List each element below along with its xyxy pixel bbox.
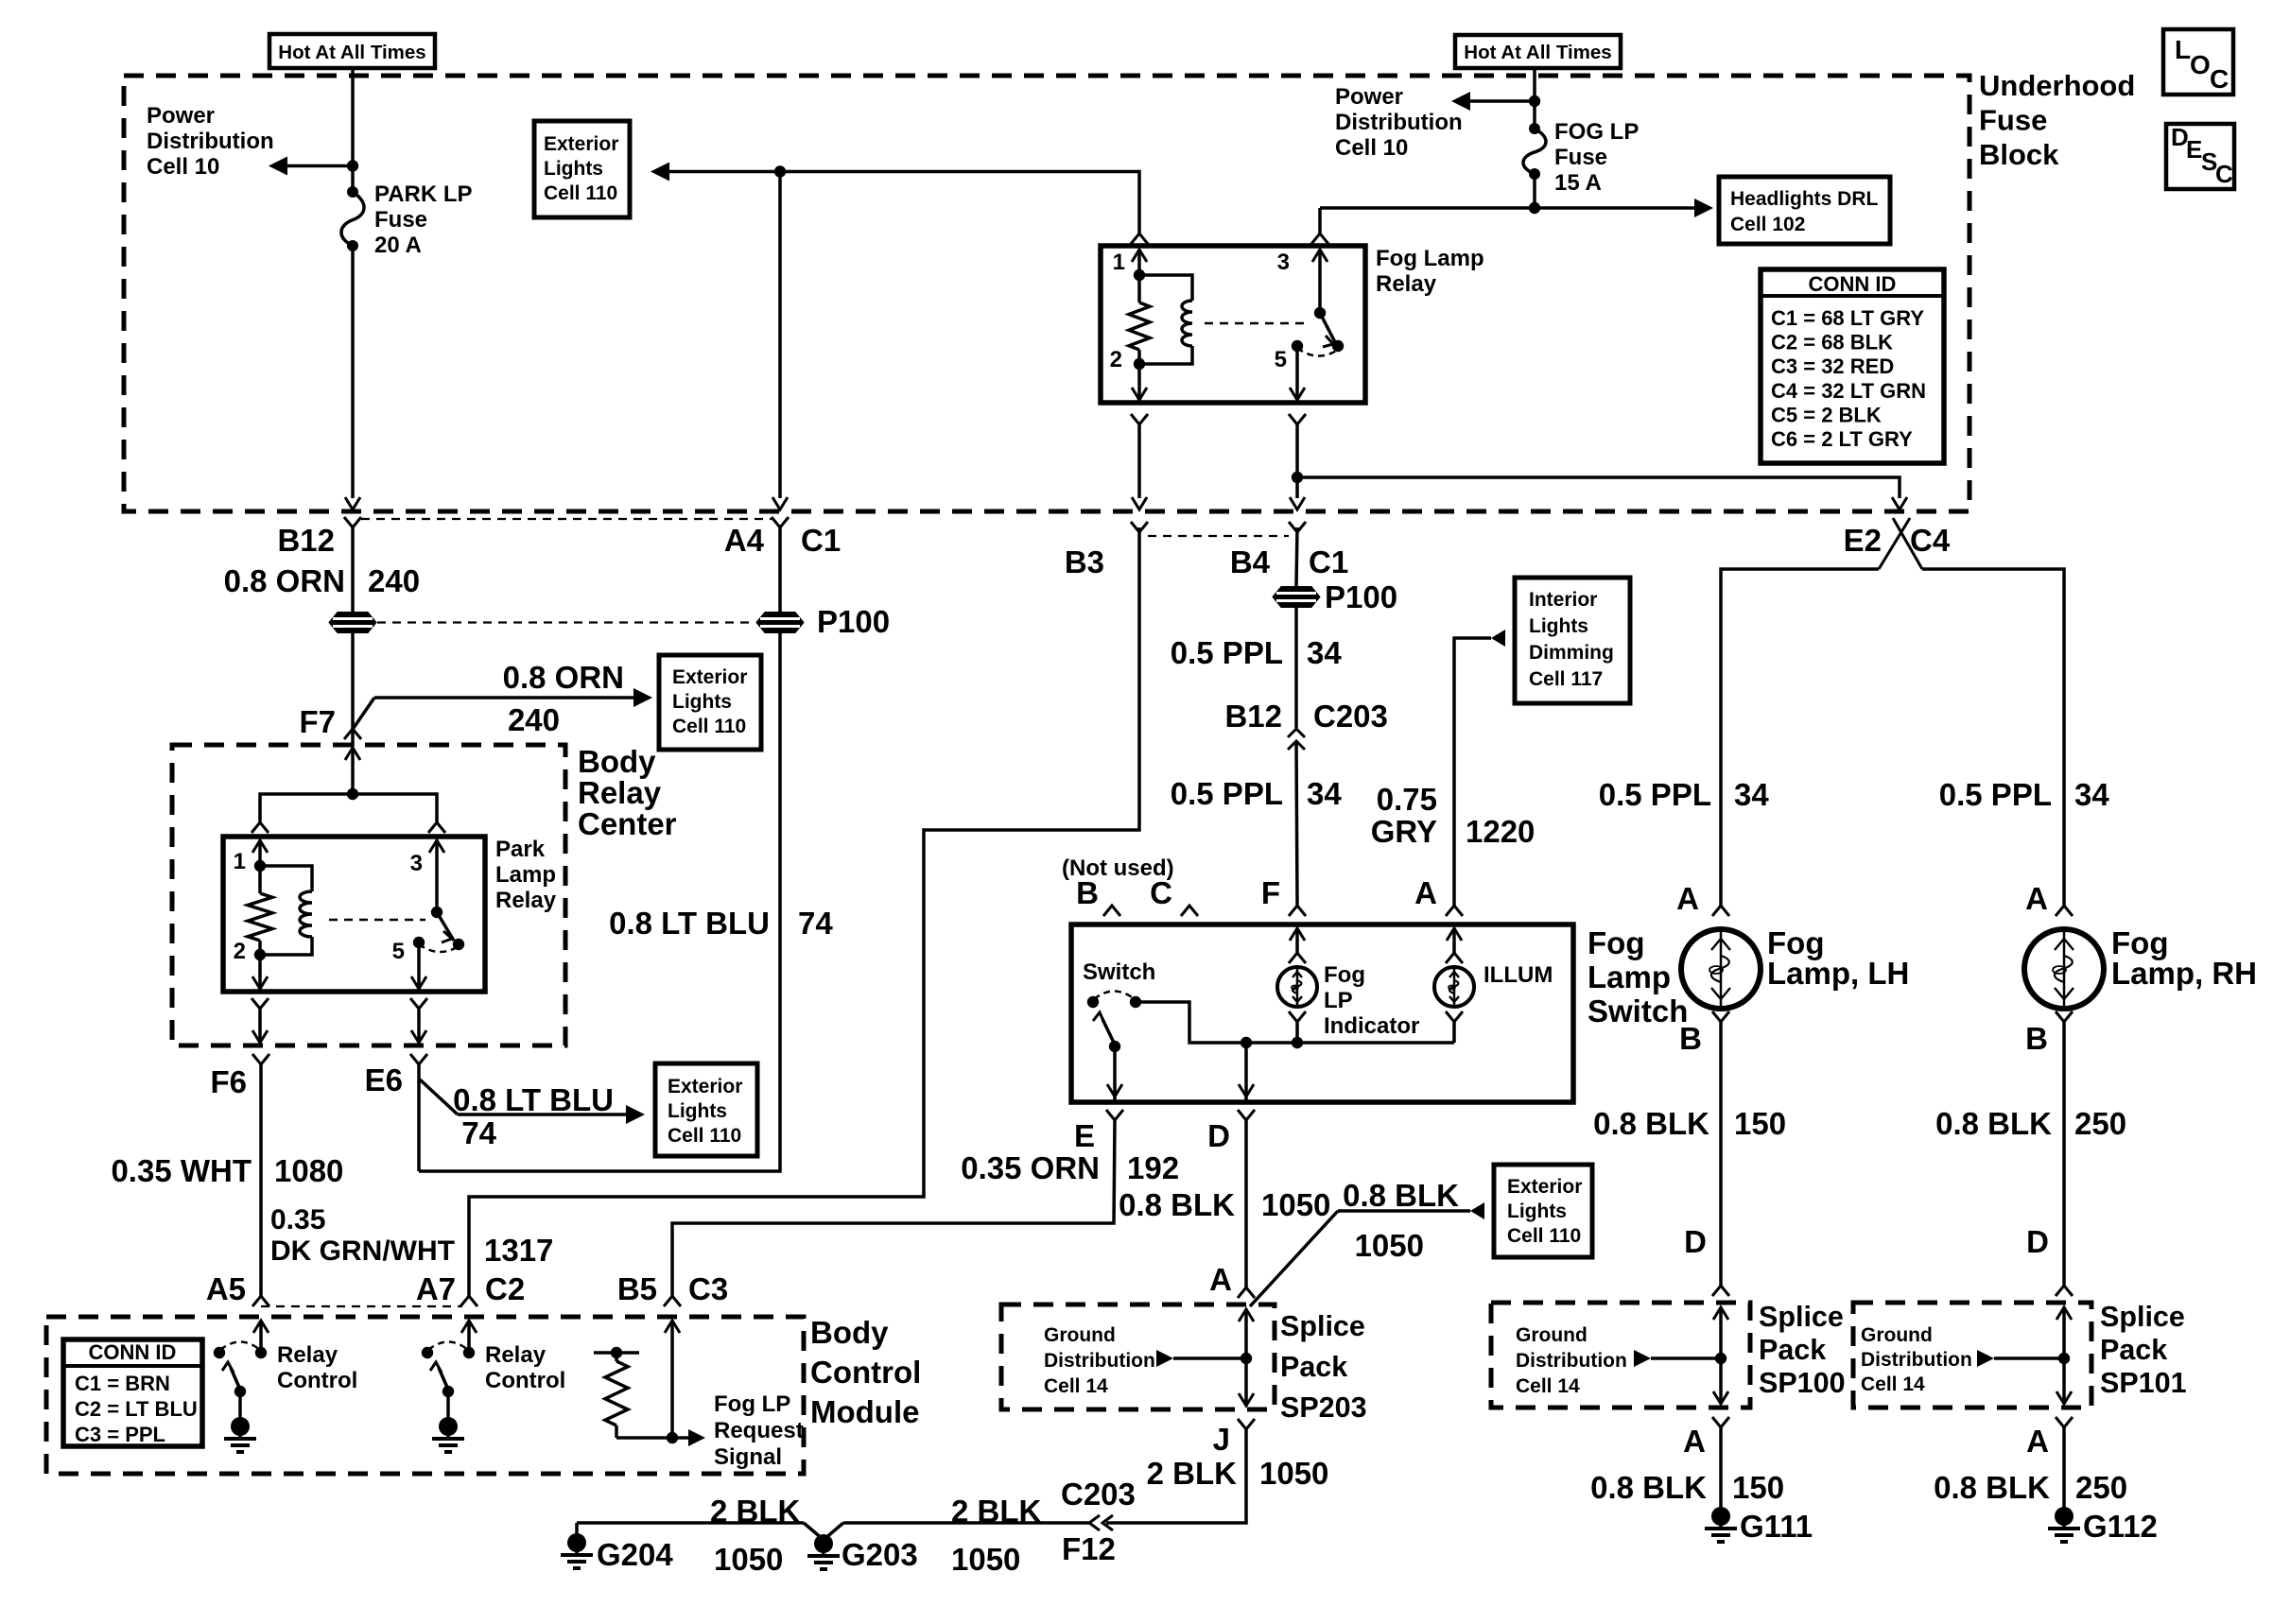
junction dot power distribution tap — [347, 160, 358, 171]
connector D chevron above SP100 — [1712, 1286, 1729, 1296]
svg-text:D: D — [1207, 1118, 1230, 1153]
thin dashed link B12 A4 — [361, 518, 772, 520]
connector fog relay pin3 chevron — [1311, 233, 1328, 244]
svg-text:0.8 BLK: 0.8 BLK — [1590, 1470, 1707, 1505]
svg-text:CONN ID: CONN ID — [1809, 272, 1897, 296]
wire indicator to rail — [1295, 1022, 1299, 1043]
svg-text:150: 150 — [1734, 1106, 1786, 1141]
box Headlights DRL Cell 102 — [1719, 177, 1890, 244]
svg-text:150: 150 — [1732, 1470, 1784, 1505]
lamp illum bottom chevron — [1446, 1011, 1463, 1022]
hot at all times box right — [1455, 35, 1621, 68]
connector fog relay pin1 chevron — [1131, 233, 1148, 244]
junction dot sp101 — [2058, 1353, 2070, 1364]
ground symbol A5 — [224, 1417, 256, 1452]
svg-text:G112: G112 — [2083, 1509, 2158, 1544]
connector A chevron below sp101 — [2056, 1417, 2073, 1427]
junction dot rail D drop — [1241, 1037, 1252, 1048]
connector park relay pin5 exit chevron — [410, 998, 427, 1009]
svg-text:1080: 1080 — [274, 1153, 343, 1188]
wire SP100 to G111 — [1719, 1427, 1723, 1509]
wire 0.8 ORN 240 branch to exterior lights box — [374, 696, 635, 700]
wire switch contact to rail — [1136, 1002, 1454, 1043]
svg-text:1050: 1050 — [714, 1542, 783, 1577]
connector X E2 C4 — [1879, 518, 1922, 569]
lamp indicator bottom chevron — [1289, 1011, 1306, 1022]
svg-text:A: A — [1676, 881, 1699, 916]
connector A7 chevron — [460, 1296, 477, 1306]
wire ground run G203 to C203 — [843, 1521, 1089, 1525]
svg-text:3: 3 — [1277, 250, 1290, 275]
wire fog relay pin3 to pivot — [1318, 250, 1322, 313]
wire fog relay pin2 down — [1137, 364, 1141, 401]
splice pack SP100 dashed box — [1491, 1303, 1750, 1408]
svg-text:1317: 1317 — [484, 1233, 553, 1268]
svg-text:1050: 1050 — [1355, 1228, 1424, 1263]
wire pin5 exit to BRC border — [417, 1009, 421, 1042]
wire top distribution to fog relay pin1 — [780, 172, 1139, 234]
svg-text:Switch: Switch — [1083, 959, 1155, 985]
lamp Fog Lamp RH — [2024, 929, 2104, 1009]
wire ground run G204 to G203 — [577, 1521, 804, 1525]
connector C203 F12 double chevron — [1089, 1515, 1113, 1530]
wire fog relay pin5 down — [1295, 346, 1299, 401]
svg-text:2 BLK: 2 BLK — [951, 1494, 1042, 1529]
wire branch to exterior lights splice — [1338, 1209, 1470, 1213]
fog relay pin1 arrow — [1132, 250, 1147, 262]
svg-text:C3: C3 — [688, 1271, 728, 1306]
junction dot fog output to E2 — [1292, 472, 1303, 483]
park relay pin1 arrow — [252, 840, 268, 853]
svg-text:2 BLK: 2 BLK — [1147, 1456, 1238, 1491]
svg-text:C: C — [2210, 64, 2229, 94]
svg-text:B4: B4 — [1230, 544, 1271, 579]
connector F7 arrow below border — [345, 748, 360, 760]
connector C203 double chevron — [1288, 729, 1305, 750]
lamp ILLUM — [1434, 967, 1474, 1007]
svg-text:0.8 BLK: 0.8 BLK — [1934, 1470, 2050, 1505]
svg-text:250: 250 — [2075, 1470, 2127, 1505]
switch arm park relay — [431, 907, 442, 918]
box Exterior Lights Cell 110 at F7 branch — [659, 655, 761, 750]
svg-text:2: 2 — [1110, 347, 1122, 372]
ground distribution arrow sp203 — [1156, 1350, 1173, 1367]
svg-text:0.8 BLK: 0.8 BLK — [1119, 1187, 1235, 1222]
svg-text:C: C — [2215, 160, 2233, 188]
wire park relay pin5 down — [417, 942, 421, 989]
svg-text:34: 34 — [1734, 777, 1769, 812]
svg-text:0.8 BLK: 0.8 BLK — [1343, 1178, 1459, 1213]
box Exterior Lights Cell 110 top — [534, 121, 630, 217]
wire drl rail to headlights box — [1320, 206, 1696, 210]
svg-text:5: 5 — [1275, 347, 1287, 372]
wire E2 to lamp split — [1721, 569, 2064, 906]
svg-text:ILLUM: ILLUM — [1484, 962, 1553, 988]
svg-text:A: A — [1414, 875, 1437, 910]
connector fog relay pin2 exit chevron — [1131, 414, 1148, 424]
svg-text:192: 192 — [1127, 1150, 1179, 1185]
wire park relay pin3 to pivot — [435, 840, 439, 912]
junction dot sp100 — [1715, 1353, 1726, 1364]
svg-text:F7: F7 — [299, 704, 336, 739]
connector E chevron below switch — [1106, 1110, 1123, 1120]
junction dot fog power distribution tap — [1529, 95, 1540, 107]
connector pin C chevron — [1181, 906, 1198, 916]
box Exterior Lights Cell 110 at splice — [1494, 1165, 1592, 1257]
svg-text:C203: C203 — [1061, 1477, 1136, 1512]
svg-text:E6: E6 — [365, 1063, 403, 1097]
svg-text:0.5 PPL: 0.5 PPL — [1171, 635, 1283, 670]
svg-text:B: B — [2025, 1021, 2048, 1056]
connector A chevron LH lamp — [1712, 906, 1729, 916]
dashed travel arc fog relay — [1297, 348, 1338, 356]
dashed actuator link fog relay — [1205, 322, 1310, 325]
svg-text:G204: G204 — [597, 1537, 673, 1572]
svg-text:D: D — [1684, 1224, 1707, 1259]
wire power distribution arrow left fog — [1468, 99, 1535, 103]
wire drl rail to fog relay pin3 — [1318, 208, 1322, 233]
svg-text:L: L — [2175, 35, 2191, 64]
branch diagonal D to exterior lights — [1250, 1211, 1338, 1306]
underhood fuse block dashed border — [124, 76, 1969, 511]
svg-text:0.5 PPL: 0.5 PPL — [1171, 776, 1283, 811]
svg-text:0.35 ORN: 0.35 ORN — [961, 1150, 1100, 1185]
junction dot drl rail — [1529, 202, 1540, 214]
svg-text:B12: B12 — [277, 523, 335, 558]
thin dashed link A5 A7 — [261, 1305, 462, 1307]
svg-text:1050: 1050 — [1261, 1187, 1330, 1222]
connector fog relay pin5 exit chevron — [1289, 414, 1306, 424]
wire B3 net to A7 — [469, 527, 1139, 1296]
ground dip G203 — [804, 1523, 843, 1540]
svg-text:P100: P100 — [1325, 579, 1397, 614]
svg-text:B: B — [1076, 875, 1099, 910]
wire resistor to request signal arrow — [616, 1436, 688, 1440]
svg-text:E: E — [1074, 1118, 1095, 1153]
svg-text:C4: C4 — [1910, 523, 1951, 558]
svg-text:0.5 PPL: 0.5 PPL — [1599, 777, 1711, 812]
switch arm fog relay — [1314, 307, 1326, 319]
connector park relay pin3 chevron — [428, 822, 445, 833]
wire C203 to fog switch F — [1296, 741, 1297, 906]
svg-text:0.8 ORN: 0.8 ORN — [224, 563, 345, 598]
connector E6 chevron below BRC — [410, 1054, 427, 1064]
svg-text:34: 34 — [1307, 776, 1342, 811]
ground symbol G111 — [1705, 1507, 1737, 1542]
svg-text:B3: B3 — [1065, 544, 1104, 579]
wire switch common to E pin — [1113, 1046, 1117, 1102]
svg-text:250: 250 — [2074, 1106, 2126, 1141]
connector A5 chevron — [252, 1296, 269, 1306]
svg-text:J: J — [1213, 1422, 1230, 1457]
svg-text:D: D — [2026, 1224, 2049, 1259]
svg-text:A4: A4 — [724, 523, 765, 558]
wire E net to B5 — [672, 1120, 1115, 1296]
wire fuse to drl rail — [1533, 174, 1536, 208]
ground symbol G204 — [561, 1533, 593, 1568]
lamp terminal chevron illum — [1446, 953, 1463, 963]
dashed actuator link park relay — [329, 919, 425, 922]
wire illum feed to interior dimming box — [1454, 638, 1491, 906]
connector B chevron LH lamp — [1712, 1011, 1729, 1022]
branch diagonal E6 to exterior lights — [420, 1080, 458, 1114]
svg-text:E2: E2 — [1844, 523, 1882, 558]
svg-text:B12: B12 — [1224, 699, 1282, 734]
connector F6 chevron below BRC — [252, 1054, 269, 1064]
box Exterior Lights Cell 110 at E6 branch — [655, 1063, 757, 1156]
svg-text:1050: 1050 — [951, 1542, 1020, 1577]
connector B12 chevron — [344, 517, 361, 527]
wire pin2 exit to BRC border — [258, 1009, 262, 1042]
svg-text:B: B — [1679, 1021, 1702, 1056]
grommet P100 right — [756, 613, 804, 633]
svg-text:C1: C1 — [801, 523, 841, 558]
svg-text:0.8 ORN: 0.8 ORN — [503, 660, 624, 695]
contact dot fog relay pin5 — [1292, 340, 1303, 352]
resistor park relay coil shunt — [258, 866, 262, 893]
wire RH lamp to SP101 — [2062, 1022, 2066, 1286]
connector pin F chevron — [1289, 906, 1306, 916]
ground distribution arrow sp100 — [1634, 1350, 1651, 1367]
connector B3 chevron below border — [1131, 522, 1148, 532]
box Interior Lights Dimming Cell 117 — [1515, 578, 1630, 703]
svg-text:0.8 BLK: 0.8 BLK — [1593, 1106, 1709, 1141]
connector park relay pin2 exit chevron — [252, 998, 269, 1009]
svg-text:G111: G111 — [1740, 1509, 1813, 1544]
svg-text:A: A — [1683, 1424, 1706, 1459]
CONN ID table BCM — [63, 1339, 202, 1446]
svg-text:Hot At All Times: Hot At All Times — [278, 42, 425, 63]
svg-text:74: 74 — [798, 906, 833, 941]
junction dot sp203 — [1241, 1353, 1252, 1364]
connector D chevron below switch — [1238, 1110, 1255, 1120]
svg-text:C1: C1 — [1309, 544, 1348, 579]
svg-text:34: 34 — [1307, 635, 1342, 670]
wire E6 down to corner — [417, 1064, 421, 1171]
wire SP101 to G112 — [2062, 1427, 2066, 1509]
coil fog relay — [1139, 275, 1192, 301]
fuse FOG LP 15A — [1523, 123, 1546, 180]
svg-text:G203: G203 — [842, 1537, 918, 1572]
svg-text:0.8 BLK: 0.8 BLK — [1935, 1106, 2052, 1141]
sp101 entry arrow — [2056, 1307, 2072, 1320]
svg-text:C1 = 68 LT GRYC2 = 68 BLKC3 =: C1 = 68 LT GRYC2 = 68 BLKC3 = 32 REDC4 =… — [1771, 306, 1926, 451]
lamp Fog Lamp LH — [1681, 929, 1761, 1009]
wire B4 chevron to grommet2 — [1296, 527, 1297, 586]
resistor fog relay coil shunt — [1137, 275, 1141, 302]
grommet P100 left — [329, 613, 376, 633]
wire LH lamp to SP100 — [1719, 1022, 1723, 1286]
resistor fog lp request — [594, 1351, 639, 1355]
sp100 entry arrow — [1713, 1307, 1728, 1320]
wire fuse to B12 border — [351, 246, 355, 498]
LOC legend box — [2163, 29, 2233, 95]
connector pin B chevron — [1103, 906, 1120, 916]
A5 relay control switch — [253, 1321, 269, 1333]
svg-text:O: O — [2190, 50, 2211, 79]
svg-text:1: 1 — [1113, 250, 1125, 275]
svg-text:2: 2 — [234, 939, 246, 964]
junction dot fog relay pin1 — [1134, 269, 1145, 281]
svg-text:240: 240 — [368, 563, 420, 598]
body control module dashed border — [46, 1317, 804, 1474]
dashed travel arc park relay — [419, 944, 459, 952]
lamp Fog LP Indicator — [1277, 967, 1317, 1007]
connector B5 chevron — [664, 1296, 681, 1306]
ground distribution arrow sp101 — [1977, 1350, 1994, 1367]
CONN ID table underhood — [1761, 269, 1944, 463]
wire A4 C1 riser top — [778, 172, 782, 499]
svg-text:A: A — [2026, 1424, 2049, 1459]
connector pin A chevron — [1446, 906, 1463, 916]
relay box Fog Lamp Relay — [1101, 246, 1365, 403]
svg-text:A7: A7 — [416, 1271, 456, 1306]
svg-text:E: E — [2186, 135, 2202, 164]
grommet P100 on B4 — [1273, 587, 1320, 608]
wire illum to rail — [1452, 1022, 1456, 1043]
svg-text:5: 5 — [392, 939, 405, 964]
wire E6 run to LT BLU riser — [419, 633, 780, 1171]
wire power distribution arrow left — [286, 164, 353, 168]
connector A chevron RH lamp — [2056, 906, 2073, 916]
dashed travel arc fog switch — [1094, 992, 1135, 1000]
splice pack SP101 dashed box — [1853, 1303, 2091, 1408]
svg-text:3: 3 — [410, 851, 423, 876]
connector B4 chevron below border — [1289, 522, 1306, 532]
svg-text:0.8 LT BLU: 0.8 LT BLU — [609, 906, 770, 941]
fog relay pin3 arrow — [1312, 250, 1327, 262]
branch diagonal F7 to exterior lights — [354, 698, 374, 728]
svg-text:B5: B5 — [617, 1271, 657, 1306]
coil park relay — [260, 866, 312, 891]
relay box Park Lamp Relay — [223, 837, 485, 992]
connector park relay pin1 chevron — [252, 822, 269, 833]
wire B4 to border — [1295, 424, 1299, 498]
sp203 entry arrow — [1239, 1309, 1254, 1322]
connector A chevron above SP203 — [1238, 1287, 1255, 1298]
junction dot park relay pin1 — [254, 860, 266, 872]
wire G204 stub — [575, 1523, 579, 1535]
svg-text:74: 74 — [461, 1115, 496, 1150]
fog switch pin A arrow — [1447, 928, 1462, 941]
ground symbol G203 — [807, 1534, 840, 1569]
svg-text:A: A — [1209, 1262, 1232, 1297]
wire fog output to E2 corner — [1297, 477, 1900, 498]
svg-text:P100: P100 — [817, 604, 890, 639]
wire F6 to BCM A5 — [259, 1064, 263, 1296]
svg-text:A: A — [2025, 881, 2048, 916]
svg-text:F12: F12 — [1062, 1531, 1116, 1566]
wire J to ground run — [1106, 1429, 1246, 1523]
B5 input arrow — [665, 1321, 680, 1333]
wire park relay pin2 down — [258, 955, 262, 989]
svg-text:1220: 1220 — [1466, 814, 1535, 849]
wire B3 to border — [1137, 424, 1141, 498]
wire F7 to park relay rail — [351, 748, 355, 794]
switch arm fog switch — [1102, 1019, 1115, 1045]
connector D chevron above SP101 — [2056, 1286, 2073, 1296]
ground symbol A7 — [432, 1417, 464, 1452]
wire D net to splice pack — [1244, 1120, 1248, 1287]
junction dot top distribution — [774, 165, 786, 177]
lamp terminal chevron fog lp indicator — [1289, 953, 1306, 963]
switch contact dots — [1087, 996, 1099, 1008]
contact dot park relay pin5 — [413, 937, 425, 948]
thin dashed link B3 B4 — [1148, 535, 1289, 537]
svg-text:C203: C203 — [1313, 699, 1388, 734]
park relay pin3 arrow — [429, 840, 444, 853]
connector A chevron below sp100 — [1712, 1417, 1729, 1427]
svg-text:1: 1 — [234, 849, 246, 874]
ground symbol G112 — [2048, 1507, 2080, 1542]
svg-text:0.75GRY: 0.75GRY — [1371, 782, 1437, 849]
svg-text:F6: F6 — [210, 1064, 247, 1099]
thin dashed link P100 pair — [377, 621, 755, 623]
fog switch pin F arrow — [1290, 928, 1305, 941]
svg-text:C2: C2 — [485, 1271, 525, 1306]
wire 0.8 LT BLU 74 branch arrow — [458, 1113, 628, 1116]
DESC legend box — [2166, 123, 2234, 189]
wire rail to D pin — [1244, 1043, 1248, 1102]
A7 relay control switch — [461, 1321, 477, 1333]
fog lamp switch box — [1071, 924, 1573, 1102]
svg-text:34: 34 — [2074, 777, 2109, 812]
junction dot fog relay pin2 — [1134, 358, 1145, 370]
svg-text:F: F — [1261, 875, 1280, 910]
svg-text:A5: A5 — [206, 1271, 246, 1306]
fuse PARK LP 20A — [341, 186, 364, 251]
svg-text:240: 240 — [508, 702, 560, 737]
svg-text:1050: 1050 — [1259, 1456, 1328, 1491]
connector J chevron below sp203 — [1238, 1419, 1255, 1429]
connector B chevron RH lamp — [2056, 1011, 2073, 1022]
svg-text:CONN ID: CONN ID — [89, 1340, 177, 1364]
wire park relay rail — [260, 794, 437, 822]
wire hot1 to park lp fuse — [351, 68, 355, 192]
svg-text:Hot At All Times: Hot At All Times — [1464, 42, 1611, 63]
connector A4 C1 chevron — [772, 517, 789, 527]
junction dot park relay pin2 — [254, 949, 266, 960]
body relay center dashed border — [172, 745, 565, 1045]
svg-text:0.5 PPL: 0.5 PPL — [1939, 777, 2052, 812]
junction dot park relay rail — [347, 788, 358, 800]
wire grommet2 to C203 — [1294, 608, 1298, 728]
hot at all times box left — [269, 34, 435, 68]
svg-text:0.8 LT BLU: 0.8 LT BLU — [453, 1082, 614, 1117]
wire to exterior lights box top — [668, 170, 780, 174]
svg-text:0.35 WHT: 0.35 WHT — [111, 1153, 252, 1188]
wire B12 chevron to grommet — [351, 527, 355, 747]
splice pack SP203 dashed box — [1001, 1304, 1275, 1409]
svg-text:2 BLK: 2 BLK — [710, 1494, 801, 1529]
connector F7 chevron above border — [344, 729, 361, 739]
wire hot2 to fog lp fuse — [1533, 68, 1536, 129]
svg-text:C: C — [1150, 875, 1172, 910]
